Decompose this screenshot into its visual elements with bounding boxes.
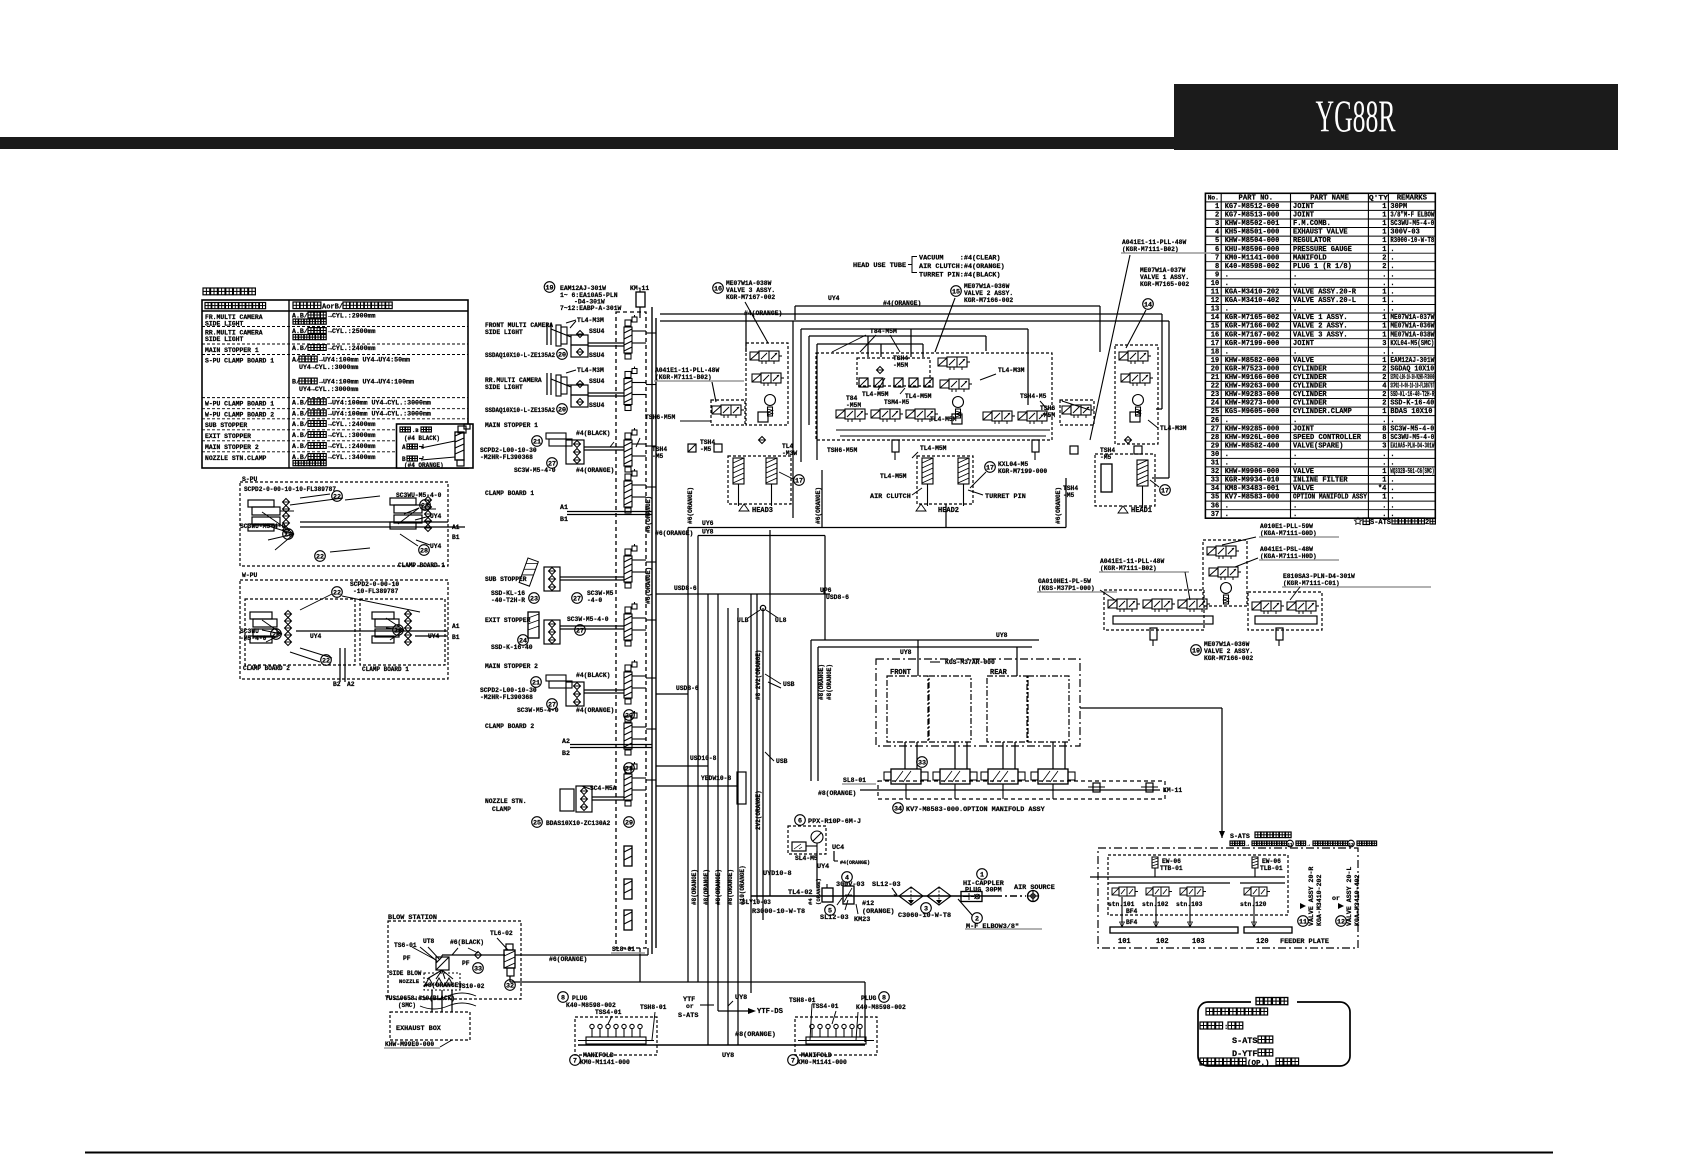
svg-text:CLAMP BOARD 1: CLAMP BOARD 1 [362,666,409,673]
svg-text:TL4-M3M: TL4-M3M [577,317,604,324]
svg-text:or: or [686,1003,694,1010]
svg-text:SSU4: SSU4 [589,352,605,359]
svg-text:→CYL.:2400mm: →CYL.:2400mm [328,421,376,428]
svg-text:CLAMP BOARD 2: CLAMP BOARD 2 [243,665,290,672]
svg-text:#4(BLACK): #4(BLACK) [576,672,611,679]
svg-text:AorB/: AorB/ [322,304,343,312]
svg-text:VALVE ASSY.20-L: VALVE ASSY.20-L [1293,297,1356,305]
svg-text:.: . [1390,485,1394,493]
svg-text:#8(ORANGE): #8(ORANGE) [818,790,856,797]
svg-text:.: . [1390,460,1394,468]
svg-text:.: . [1390,297,1394,305]
svg-text:W-PU CLAMP BOARD 2: W-PU CLAMP BOARD 2 [205,412,274,419]
svg-text:TLB-01: TLB-01 [1260,865,1283,872]
svg-text:KGR-M7166-002: KGR-M7166-002 [1225,323,1280,331]
svg-text:#4(ORANGE): #4(ORANGE) [840,860,870,866]
svg-text:PLUG 30PM: PLUG 30PM [965,886,1002,894]
svg-text:USD10-8: USD10-8 [690,755,717,762]
svg-text:NOZZLE STN.CLAMP: NOZZLE STN.CLAMP [205,455,267,462]
svg-text:.: . [1225,451,1229,459]
svg-text:S-PU CLAMP BOARD 1: S-PU CLAMP BOARD 1 [205,358,274,365]
svg-text:UY6: UY6 [702,520,714,527]
svg-text:EAM12AJ-301W: EAM12AJ-301W [560,285,606,292]
svg-text:2: 2 [1382,254,1386,262]
svg-text:.: . [1390,280,1394,288]
svg-text:HEAD2: HEAD2 [938,507,959,515]
svg-text:101: 101 [1118,938,1131,946]
svg-text:S-ATS: S-ATS [1232,1036,1258,1046]
svg-text:A041E1-11-PLL-48W: A041E1-11-PLL-48W [1100,558,1164,565]
svg-text:SLY10-03: SLY10-03 [742,899,771,906]
svg-text:UY4: UY4 [430,513,442,520]
svg-text:A: A [402,444,406,451]
svg-text:UY4: UY4 [310,633,322,640]
svg-text:JOINT: JOINT [1293,425,1314,433]
svg-text:SCP02-L00-10-30-M2HR-FC0900: SCP02-L00-10-30-M2HR-FC0900 [1390,374,1434,382]
svg-text:SGDAQ 10X10: SGDAQ 10X10 [1390,366,1434,374]
svg-text:14: 14 [1144,301,1152,309]
svg-text:stn.101: stn.101 [1108,901,1135,908]
svg-text:-M5: -M5 [1063,492,1075,499]
svg-text:KG7-M8512-000: KG7-M8512-000 [1225,203,1280,211]
svg-text:SSD-K-16-40: SSD-K-16-40 [491,644,533,651]
svg-text:8: 8 [882,994,886,1002]
svg-text:1: 1 [1382,408,1386,416]
svg-text:32: 32 [506,982,514,990]
svg-text:1: 1 [1382,220,1386,228]
svg-text:USD8-6: USD8-6 [676,685,699,692]
svg-text:UC4: UC4 [832,844,844,852]
svg-text:SSDAQ10X10-L-ZE135A2: SSDAQ10X10-L-ZE135A2 [485,352,555,359]
svg-text:EXIT STOPPER: EXIT STOPPER [205,433,251,440]
svg-text:OPTION MANIFOLD ASSY: OPTION MANIFOLD ASSY [1293,494,1368,502]
svg-text:.: . [1293,271,1297,279]
svg-text:PART NO.: PART NO. [1239,195,1274,203]
svg-text:26: 26 [1211,417,1219,425]
svg-text:TL4-M3M: TL4-M3M [1160,425,1187,432]
svg-text:A.B/: A.B/ [292,421,308,428]
svg-text:(KGR-M7111-C01): (KGR-M7111-C01) [1283,580,1340,587]
svg-text:AIR CLUTCH: AIR CLUTCH [870,493,911,501]
svg-text:EXHAUST BOX: EXHAUST BOX [396,1025,442,1033]
svg-text:FRONT MULTI CAMERA: FRONT MULTI CAMERA [485,322,553,329]
svg-text:KGR-M7199-000: KGR-M7199-000 [1225,340,1280,348]
svg-text:ME07W1A-037W: ME07W1A-037W [1140,267,1186,274]
svg-text:22: 22 [316,553,324,561]
svg-text:YEDW10-8: YEDW10-8 [701,775,731,782]
svg-text:YTF-DS: YTF-DS [757,1008,784,1016]
svg-text:KHW-M8582-400: KHW-M8582-400 [1225,442,1280,450]
svg-text:SL8-01: SL8-01 [843,777,866,784]
svg-text:A2: A2 [562,738,570,745]
svg-text:MAIN STOPPER 1: MAIN STOPPER 1 [485,422,538,429]
svg-text:.: . [1390,477,1394,485]
svg-text:29: 29 [1211,442,1219,450]
svg-text:KM8-M3483-001: KM8-M3483-001 [1225,485,1280,493]
svg-text:KHW-M9166-000: KHW-M9166-000 [1225,374,1280,382]
svg-text:K40-M8598-002: K40-M8598-002 [566,1002,616,1009]
svg-text:1: 1 [1382,323,1386,331]
svg-text:1: 1 [1382,289,1386,297]
svg-text:R3000-10-W-T8: R3000-10-W-T8 [752,908,805,916]
svg-text:.: . [1293,460,1297,468]
svg-text:VALVE: VALVE [1293,357,1314,365]
svg-text:A2: A2 [347,681,355,688]
svg-text:(SMC): (SMC) [398,1002,416,1009]
svg-text:EXIT STOPPER: EXIT STOPPER [485,617,531,624]
svg-text:#4(BLACK): #4(BLACK) [576,430,611,437]
svg-text:SUB STOPPER: SUB STOPPER [205,422,247,429]
svg-text:VALVE: VALVE [1293,468,1314,476]
svg-text:SC3W-M5-4-0: SC3W-M5-4-0 [514,467,556,474]
svg-text:CYLINDER.CLAMP: CYLINDER.CLAMP [1293,408,1352,416]
svg-text:1: 1 [1382,494,1386,502]
svg-text:300V-03: 300V-03 [1390,229,1419,237]
svg-text:17: 17 [795,477,803,485]
svg-text:103: 103 [1192,938,1205,946]
svg-text:No.: No. [1208,195,1219,202]
svg-text:TSH4: TSH4 [1063,485,1078,492]
svg-text:#8(ORANGE): #8(ORANGE) [691,869,698,905]
svg-text:W-PU CLAMP BOARD 1: W-PU CLAMP BOARD 1 [205,400,274,407]
svg-text:2V2(ORANGE): 2V2(ORANGE) [755,790,762,830]
svg-text:(KGR-M7111-B02): (KGR-M7111-B02) [1122,246,1179,253]
svg-text:BDAS 10X10: BDAS 10X10 [1390,408,1432,416]
svg-text:7~12:EABP-A-301W: 7~12:EABP-A-301W [560,305,622,312]
svg-text:(ORANGE): (ORANGE) [862,908,895,916]
svg-text:ME07W1A-037W: ME07W1A-037W [1390,314,1435,322]
svg-text:PLUG: PLUG [572,995,588,1002]
svg-text:.: . [1225,306,1229,314]
svg-text:.: . [1390,263,1394,271]
svg-text:28: 28 [625,765,633,773]
svg-text:TSH6: TSH6 [1040,405,1055,412]
svg-text:31: 31 [1211,460,1219,468]
svg-text:300V-03: 300V-03 [836,881,865,889]
svg-text:.: . [1225,460,1229,468]
svg-text:24: 24 [1211,400,1219,408]
svg-text:M-F ELBOW3/8": M-F ELBOW3/8" [966,923,1019,931]
svg-text:SIDE LIGHT: SIDE LIGHT [205,321,244,328]
svg-text:A010E1-PLL-59W: A010E1-PLL-59W [1260,523,1313,530]
svg-text:VALVE ASSY.20-R: VALVE ASSY.20-R [1293,289,1357,297]
svg-text:SSD-KL-16: SSD-KL-16 [491,590,525,597]
svg-text:KGA-M3410-202: KGA-M3410-202 [1225,289,1280,297]
svg-text:TSH4: TSH4 [652,446,667,453]
svg-text:VALVE 3 ASSY.: VALVE 3 ASSY. [726,287,775,294]
svg-text:SC3WU-M5-4-0: SC3WU-M5-4-0 [1390,434,1434,442]
svg-text:2: 2 [1382,263,1386,271]
svg-text:VALVE 2 ASSY.: VALVE 2 ASSY. [1293,323,1348,331]
svg-text:TSH4-M5: TSH4-M5 [1020,393,1047,400]
svg-text:2: 2 [1382,400,1386,408]
svg-text:.: . [1293,306,1297,314]
svg-text:.: . [1293,348,1297,356]
svg-text:.: . [1382,502,1386,510]
svg-text:.: . [1390,254,1394,262]
svg-text:16: 16 [1211,331,1219,339]
svg-text:16: 16 [714,285,722,293]
svg-text:stn.102: stn.102 [1142,901,1169,908]
svg-text:UT8: UT8 [423,938,435,945]
svg-text:2: 2 [1425,519,1429,527]
svg-text:USB: USB [783,681,795,688]
svg-text:MANIFOLD: MANIFOLD [583,1052,614,1059]
svg-text:.: . [1390,451,1394,459]
svg-text:(OP.): (OP.) [1247,1060,1270,1068]
svg-text:KM23: KM23 [854,916,870,924]
svg-text:SCP02-0-00-10-10-FL389787: SCP02-0-00-10-10-FL389787 [1390,383,1434,391]
svg-text:FEEDER PLATE: FEEDER PLATE [1280,938,1329,946]
svg-text:EXHAUST VALVE: EXHAUST VALVE [1293,229,1348,237]
svg-text:#6(ORANGE): #6(ORANGE) [645,567,652,604]
svg-text:UY4→CYL.:3000mm: UY4→CYL.:3000mm [299,364,358,371]
svg-text:.: . [1390,348,1394,356]
svg-text:7: 7 [573,1057,577,1065]
svg-text:TL4-M5M: TL4-M5M [862,391,889,398]
svg-text:CYLINDER: CYLINDER [1293,400,1327,408]
svg-text:-M5: -M5 [652,453,664,460]
svg-text:TL4: TL4 [782,443,794,450]
svg-text:.: . [1293,417,1297,425]
svg-text:→CYL.:3000mm: →CYL.:3000mm [328,432,376,439]
svg-text:INLINE FILTER: INLINE FILTER [1293,477,1348,485]
svg-text:12: 12 [1337,918,1345,926]
svg-text:SCPD2-L00-10-30: SCPD2-L00-10-30 [480,447,537,454]
svg-text:(KGR-M7111-B02): (KGR-M7111-B02) [1100,565,1157,572]
svg-text:PLUG: PLUG [861,995,877,1002]
svg-text:22: 22 [1211,383,1219,391]
svg-text:KGR-M7165-002: KGR-M7165-002 [1225,314,1280,322]
svg-text:SC3WU-M5-4-0: SC3WU-M5-4-0 [1390,220,1434,228]
svg-text:JOINT: JOINT [1293,212,1314,220]
svg-text:-M2HR-FL390368: -M2HR-FL390368 [480,694,533,701]
svg-text:UY8: UY8 [735,994,747,1002]
svg-text:B1: B1 [452,534,460,541]
svg-text:2: 2 [1382,374,1386,382]
svg-text:KGR-M9934-010: KGR-M9934-010 [1225,477,1280,485]
svg-text:#4(ORANGE): #4(ORANGE) [576,467,614,474]
svg-text:→UY4:100mm UY4→CYL.:3000mm: →UY4:100mm UY4→CYL.:3000mm [328,410,431,417]
svg-text:19: 19 [545,284,553,292]
svg-text:KV7-M8583-000: KV7-M8583-000 [1225,494,1280,502]
svg-text:SL12-03: SL12-03 [820,914,849,922]
svg-text:.: . [1225,502,1229,510]
svg-text:.: . [1225,280,1229,288]
svg-text:1: 1 [980,871,984,879]
svg-text:#8(ORANGE): #8(ORANGE) [424,982,462,989]
svg-text:1: 1 [1382,468,1386,476]
svg-text:TL4-M5M: TL4-M5M [920,445,947,452]
svg-text:3: 3 [1382,442,1386,450]
svg-text:17: 17 [986,464,994,472]
svg-text:SL12-03: SL12-03 [872,881,901,889]
svg-text:SSD-KL-16-40-T2H-R: SSD-KL-16-40-T2H-R [1390,391,1434,399]
svg-text:KHW-M9906-000: KHW-M9906-000 [1225,468,1280,476]
svg-text:TSH4: TSH4 [893,355,908,362]
svg-text:#8(ORANGE): #8(ORANGE) [818,664,825,700]
svg-text:KHU-M8596-000: KHU-M8596-000 [1225,246,1280,254]
svg-text:#6(ORANGE): #6(ORANGE) [1055,487,1062,524]
svg-text:B1: B1 [560,516,568,523]
svg-text:KGR-M7165-002: KGR-M7165-002 [1140,281,1189,288]
svg-text:(KGA-M7111-H0D): (KGA-M7111-H0D) [1260,553,1317,560]
svg-text:8: 8 [1382,425,1386,433]
svg-text:KGR-M7199-000: KGR-M7199-000 [998,468,1047,475]
svg-text:SL8-01: SL8-01 [612,946,635,953]
svg-text:28: 28 [1211,434,1219,442]
svg-text:VALVE 1 ASSY.: VALVE 1 ASSY. [1293,314,1348,322]
svg-text:-M5M: -M5M [846,402,861,409]
svg-text:20: 20 [1211,366,1219,374]
svg-text:19: 19 [1211,357,1219,365]
svg-text:VACUUM :#4(CLEAR): VACUUM :#4(CLEAR) [919,255,1001,263]
svg-text:→CYL.:2500mm: →CYL.:2500mm [328,328,376,335]
svg-text:7: 7 [791,1057,795,1065]
svg-text:#8(ORANGE): #8(ORANGE) [735,1031,776,1039]
svg-text:32: 32 [1211,468,1219,476]
svg-text:TL4-M5M: TL4-M5M [880,473,907,480]
svg-text:.: . [1382,271,1386,279]
svg-text:#4: #4 [807,898,814,905]
svg-text:5: 5 [1215,237,1219,245]
svg-text:102: 102 [1156,938,1169,946]
svg-text:KGR-M7166-002: KGR-M7166-002 [1204,655,1253,662]
svg-text:29: 29 [625,819,633,827]
svg-text:KH5-M8501-000: KH5-M8501-000 [1225,229,1280,237]
svg-text:TL4-M5M: TL4-M5M [930,416,957,423]
svg-text:-40-T2H-R: -40-T2H-R [491,597,525,604]
svg-text:TL4-M3M: TL4-M3M [998,367,1025,374]
svg-text:12: 12 [1211,297,1219,305]
svg-text:KHW-M8502-001: KHW-M8502-001 [1225,220,1280,228]
svg-text:A1: A1 [452,623,460,630]
svg-text:.: . [1390,417,1394,425]
svg-text:#12: #12 [862,900,874,908]
svg-text:B1: B1 [452,634,460,641]
svg-text:21: 21 [1211,374,1219,382]
svg-text:TSH4: TSH4 [700,439,715,446]
svg-text:18: 18 [1211,348,1219,356]
svg-text:VALVE(SPARE): VALVE(SPARE) [1293,442,1343,450]
svg-text:REMARKS: REMARKS [1397,195,1428,203]
svg-text:→: → [1246,842,1249,848]
svg-text:USB: USB [776,758,788,765]
svg-text:1: 1 [1215,203,1219,211]
svg-text:CYLINDER: CYLINDER [1293,391,1327,399]
svg-text:TTB-01: TTB-01 [1160,865,1183,872]
svg-text:#6(ORANGE): #6(ORANGE) [645,496,652,533]
svg-text:or: or [1332,895,1340,902]
svg-text:.: . [1382,306,1386,314]
svg-text:1: 1 [1382,357,1386,365]
svg-text:stn.120: stn.120 [1240,901,1267,908]
svg-text:2: 2 [1382,391,1386,399]
svg-text:PPX-R10P-6M-J: PPX-R10P-6M-J [808,818,861,826]
svg-text:ME07W1A-038W: ME07W1A-038W [1390,331,1435,339]
svg-text:.: . [1225,271,1229,279]
svg-text:HEAD3: HEAD3 [752,507,773,515]
svg-text:K40-M8598-002: K40-M8598-002 [1225,263,1280,271]
svg-text:21: 21 [533,438,541,446]
svg-text:2: 2 [1215,212,1219,220]
svg-text:MAIN STOPPER 2: MAIN STOPPER 2 [485,663,538,670]
svg-text:#8 2V2(ORANGE): #8 2V2(ORANGE) [755,650,762,700]
svg-text:EAM12AJ-301W: EAM12AJ-301W [1390,357,1435,365]
svg-text:1: 1 [1382,297,1386,305]
svg-text:-M2HR-FL390368: -M2HR-FL390368 [480,454,533,461]
svg-text:TSH4: TSH4 [1100,447,1115,454]
svg-text:33: 33 [474,965,482,973]
svg-text:→CYL.:2400mm: →CYL.:2400mm [328,345,376,352]
svg-text:37: 37 [1211,511,1219,519]
svg-text:R3000-10-W-T8: R3000-10-W-T8 [1390,237,1434,245]
svg-text:VALVE 2 ASSY.: VALVE 2 ASSY. [964,290,1013,297]
svg-text:CYLINDER: CYLINDER [1293,366,1327,374]
svg-text:#6(BLACK): #6(BLACK) [450,939,484,946]
svg-text:KGS-M37AR-000: KGS-M37AR-000 [945,659,995,666]
svg-text:MAIN STOPPER 2: MAIN STOPPER 2 [205,444,259,451]
svg-text:KHW-M9285-000: KHW-M9285-000 [1225,425,1280,433]
svg-text:KGR-M7167-002: KGR-M7167-002 [726,294,775,301]
svg-text:KHW-M9263-000: KHW-M9263-000 [1225,383,1280,391]
svg-text:-M5: -M5 [700,446,712,453]
svg-text:SSU4: SSU4 [589,402,605,409]
svg-text:EW-06: EW-06 [1162,858,1181,865]
svg-text:TSH6-M5M: TSH6-M5M [827,447,857,454]
svg-text:EA10A5-PLN-D4-301W: EA10A5-PLN-D4-301W [1390,442,1434,450]
svg-text:KM0-M1141-000: KM0-M1141-000 [797,1059,847,1066]
svg-text:#6(ORANGE): #6(ORANGE) [687,487,694,524]
svg-text:W-PU: W-PU [242,572,258,579]
svg-text:.: . [1390,271,1394,279]
svg-text:KHW-M99E0-000: KHW-M99E0-000 [385,1041,434,1048]
svg-text:.: . [1382,348,1386,356]
svg-text:KHW-M8582-000: KHW-M8582-000 [1225,357,1280,365]
svg-text:BDAS10X10-ZC130A2: BDAS10X10-ZC130A2 [546,820,610,827]
svg-text:.: . [1382,417,1386,425]
svg-text:ULB: ULB [737,617,749,624]
svg-text:A041E1-PSL-48W: A041E1-PSL-48W [1260,546,1313,553]
svg-text:A041E1-11-PLL-48W: A041E1-11-PLL-48W [655,367,719,374]
svg-text:A.B/: A.B/ [292,410,308,417]
svg-text:ME07W1A-036W: ME07W1A-036W [1204,641,1250,648]
svg-text:SC4-M5A: SC4-M5A [590,785,617,792]
svg-text:SIDE LIGHT: SIDE LIGHT [485,384,523,391]
svg-text:RR.MULTI CAMERA: RR.MULTI CAMERA [485,377,542,384]
svg-text:.: . [1382,511,1386,519]
svg-text:UY8: UY8 [900,649,912,656]
svg-text:6: 6 [1215,246,1219,254]
svg-text:.: . [1293,280,1297,288]
svg-text:2: 2 [1382,366,1386,374]
svg-text:VALVE 2 ASSY.: VALVE 2 ASSY. [1204,648,1253,655]
svg-text:→UY4:100mm UY4→CYL.:3000mm: →UY4:100mm UY4→CYL.:3000mm [328,399,431,406]
svg-text:8: 8 [1215,263,1219,271]
svg-text:→CYL.:2400mm: →CYL.:2400mm [328,443,376,450]
svg-text:B2: B2 [562,750,570,757]
svg-text:7: 7 [1215,254,1219,262]
svg-text:SPEED CONTROLLER: SPEED CONTROLLER [1293,434,1362,442]
svg-text:11: 11 [1211,289,1219,297]
svg-text:VALVE ASSY 20-L: VALVE ASSY 20-L [1346,867,1353,926]
svg-text:VALVE ASSY 20-R: VALVE ASSY 20-R [1308,867,1315,926]
svg-text:#4(ORANGE): #4(ORANGE) [576,707,614,714]
svg-text:TSH8-01: TSH8-01 [640,1004,667,1011]
svg-text:A.B/: A.B/ [292,399,308,406]
svg-text:(KGA-M7111-G0D): (KGA-M7111-G0D) [1260,530,1317,537]
svg-text:UL8: UL8 [775,617,787,624]
